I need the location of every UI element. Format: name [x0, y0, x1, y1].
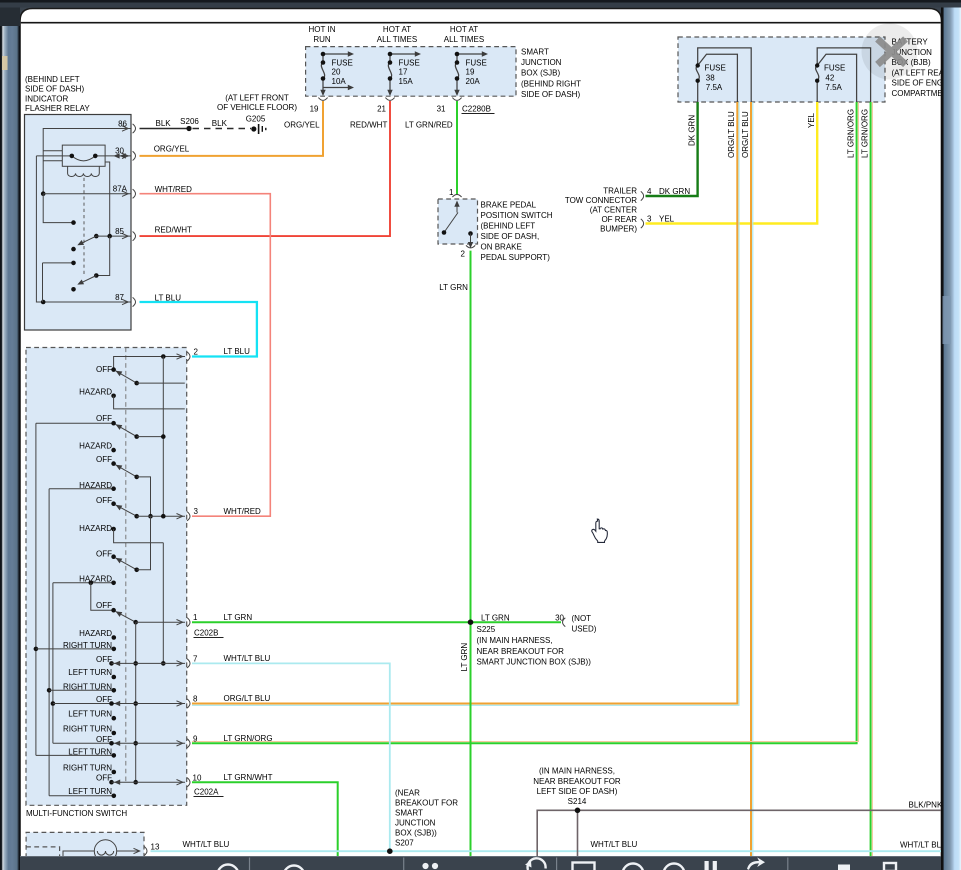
svg-text:17: 17 [399, 68, 408, 77]
svg-text:OFF: OFF [96, 549, 112, 558]
relay pin 85 [115, 227, 135, 241]
app right scrollbar strip [941, 0, 961, 870]
svg-text:JUNCTION: JUNCTION [521, 58, 562, 67]
relay internal wiring [36, 129, 131, 305]
MF LEFT TURN contact row 2 [68, 709, 116, 720]
svg-text:1: 1 [449, 188, 454, 197]
svg-text:LT GRN: LT GRN [224, 613, 253, 622]
svg-text:FUSE: FUSE [332, 59, 353, 68]
relay pin 87A [113, 185, 136, 199]
MF pin 9 [177, 735, 199, 748]
svg-text:WHT/LT BLU: WHT/LT BLU [900, 841, 947, 850]
svg-text:SMART JUNCTION BOX (SJB)): SMART JUNCTION BOX (SJB)) [477, 658, 592, 667]
wire RED/WHT from SJB 21 to relay 85 [140, 101, 391, 236]
svg-text:S225: S225 [477, 625, 496, 634]
svg-text:BLK: BLK [156, 119, 172, 128]
MF OFF contact row 3 [96, 455, 116, 466]
turn indicator lamp box [26, 832, 144, 858]
label BATTERY JUNCTION BOX (BJB) [892, 38, 957, 99]
svg-text:WHT/RED: WHT/RED [224, 507, 262, 516]
svg-text:NEAR BREAKOUT FOR: NEAR BREAKOUT FOR [477, 647, 565, 656]
MF RIGHT TURN contact row 3 [63, 724, 116, 735]
svg-text:2: 2 [194, 348, 199, 357]
battery junction box BJB [678, 37, 885, 102]
wire WHT/RED from relay 87A to MF pin 3 [140, 185, 271, 516]
wire LT BLU from relay 87 to MF pin 2 [140, 294, 257, 357]
svg-text:(IN MAIN HARNESS,: (IN MAIN HARNESS, [539, 767, 615, 776]
svg-text:30: 30 [115, 147, 124, 156]
svg-text:ORG/LT BLU: ORG/LT BLU [741, 111, 750, 158]
fuse 17 15A [387, 51, 421, 96]
MF OFF contact pin 10 row [96, 774, 185, 785]
app left scrollbar strip [0, 0, 20, 870]
label MULTI-FUNCTION SWITCH [26, 809, 127, 818]
relay pin 30 [115, 147, 135, 161]
toolbar icons (cut off at bottom) [218, 857, 897, 870]
label HOT IN RUN [309, 25, 336, 44]
MF HAZARD contact row 1 [79, 387, 185, 409]
relay pin 87 [115, 293, 135, 307]
wire RED/WHT label [350, 121, 387, 130]
wire BLK from relay 86 to S206 [140, 119, 187, 129]
svg-text:13: 13 [151, 843, 160, 852]
svg-text:ALL TIMES: ALL TIMES [444, 35, 484, 44]
svg-text:NEAR BREAKOUT FOR: NEAR BREAKOUT FOR [533, 777, 621, 786]
svg-text:20: 20 [332, 68, 341, 77]
svg-text:RUN: RUN [313, 35, 331, 44]
svg-text:FUSE: FUSE [705, 64, 726, 73]
MF internal line pin 2 to OFF contact [114, 354, 185, 369]
wire label ORG/LT BLU at MF pin 8 [224, 694, 271, 703]
wire WHT/LT BLU from lamp pin 13 across page [151, 840, 948, 851]
svg-text:4: 4 [647, 187, 652, 196]
MF OFF contact row 5 [96, 549, 116, 559]
svg-text:BUMPER): BUMPER) [600, 225, 637, 234]
MF HAZARD contact row 2 [79, 441, 116, 452]
trailer tow connector label [565, 187, 637, 234]
wire LT GRN/ORG from BJB down to MF pin 9 [192, 102, 858, 743]
svg-text:C2280B: C2280B [462, 105, 491, 114]
svg-text:POSITION SWITCH: POSITION SWITCH [481, 211, 553, 220]
svg-text:ALL TIMES: ALL TIMES [377, 35, 417, 44]
svg-text:(IN MAIN HARNESS,: (IN MAIN HARNESS, [477, 636, 553, 645]
wire label WHT/RED at MF pin 3 [224, 507, 262, 516]
svg-text:7.5A: 7.5A [825, 83, 842, 92]
wire ORG/YEL label at relay 30 [154, 145, 190, 154]
MF LEFT TURN contact row 1 [68, 668, 116, 679]
svg-text:BOX (SJB)): BOX (SJB)) [395, 828, 437, 837]
wire YEL from BJB fuse 42 to trailer pin 3 [646, 102, 818, 224]
svg-text:SMART: SMART [395, 808, 423, 817]
svg-text:42: 42 [825, 73, 834, 82]
svg-text:DK GRN: DK GRN [687, 115, 696, 146]
wire label ORG/LT BLU (vertical, 1) [727, 111, 736, 158]
label S207 harness note [395, 788, 458, 847]
MF RIGHT TURN contact row 1 [36, 641, 116, 651]
brake switch pin 1 [449, 188, 462, 197]
MF OFF contact pin 7 row [96, 655, 185, 666]
svg-text:HAZARD: HAZARD [79, 629, 112, 638]
svg-text:LT GRN/ORG: LT GRN/ORG [846, 109, 855, 158]
wire LT GRN/RED from SJB 31 to brake switch pin 1 [456, 101, 458, 194]
MF switch arm 6 (to pin 1) [114, 609, 185, 624]
svg-text:ORG/LT BLU: ORG/LT BLU [727, 111, 736, 158]
MF pin 8 [177, 695, 199, 709]
svg-text:FUSE: FUSE [399, 59, 420, 68]
svg-text:C202A: C202A [194, 788, 219, 797]
svg-text:38: 38 [706, 73, 715, 82]
indicator flasher relay box [25, 115, 132, 331]
MF HAZARD contact row 4 [79, 524, 163, 543]
ground G205 [246, 115, 266, 134]
svg-text:LT GRN/RED: LT GRN/RED [405, 121, 453, 130]
svg-text:7: 7 [193, 655, 198, 664]
wire RED/WHT label at relay 85 [155, 226, 192, 235]
trailer tow connector pin 3 [641, 215, 675, 229]
svg-text:ON BRAKE: ON BRAKE [481, 243, 522, 252]
SJB pin 21 [377, 98, 395, 114]
MF LEFT TURN contact row 3 [36, 747, 116, 757]
svg-text:HOT IN: HOT IN [309, 25, 336, 34]
svg-text:YEL: YEL [807, 112, 816, 128]
MF OFF contact row 2 [36, 414, 116, 425]
svg-text:S214: S214 [568, 797, 587, 806]
wire BLK dashed from S206 to G205 [193, 119, 252, 129]
svg-text:(BEHIND LEFT: (BEHIND LEFT [481, 222, 536, 231]
svg-text:SIDE OF DASH): SIDE OF DASH) [25, 85, 84, 94]
wire label DK GRN (vertical) [687, 115, 696, 146]
page header divider line [21, 22, 941, 24]
MF bus from pin 2 line to pin 3 line [162, 357, 164, 517]
smart junction box SJB [306, 47, 516, 97]
fuse 42 7.5A [815, 48, 871, 102]
svg-text:RIGHT TURN: RIGHT TURN [63, 763, 112, 772]
wire LT GRN from brake switch pin 2 through S225 to page bottom [439, 251, 470, 858]
svg-text:3: 3 [647, 215, 652, 224]
svg-text:10: 10 [193, 774, 202, 783]
svg-text:OF REAR: OF REAR [601, 215, 637, 224]
svg-text:LT GRN/WHT: LT GRN/WHT [224, 773, 273, 782]
label indicator flasher relay [25, 75, 90, 113]
brake switch pin 2 [461, 245, 476, 258]
MF switch arm 2 [114, 422, 165, 439]
svg-text:WHT/LT BLU: WHT/LT BLU [591, 840, 638, 849]
pin 30 (NOT USED) [555, 614, 597, 634]
svg-text:8: 8 [193, 695, 198, 704]
MF left bus 1 [34, 423, 39, 755]
svg-text:BRAKE PEDAL: BRAKE PEDAL [481, 201, 537, 210]
wire label ORG/LT BLU (vertical, 2) [741, 111, 750, 158]
brake switch contacts [442, 201, 474, 249]
svg-text:LEFT TURN: LEFT TURN [68, 668, 112, 677]
wire label LT GRN/ORG (vertical, 1) [846, 109, 855, 158]
MF pin 2 [177, 348, 199, 362]
MF switch arm 4 (to pin 3) [114, 503, 185, 519]
splice S225 [468, 619, 496, 634]
svg-text:LT GRN: LT GRN [460, 643, 469, 672]
svg-text:7.5A: 7.5A [706, 83, 723, 92]
svg-text:LT BLU: LT BLU [155, 294, 182, 303]
svg-text:31: 31 [437, 105, 446, 114]
svg-text:YEL: YEL [659, 215, 675, 224]
svg-text:19: 19 [310, 105, 319, 114]
svg-text:10A: 10A [332, 77, 347, 86]
relay pin 30 internal arrows [105, 153, 131, 158]
MF switch arm 3 [114, 462, 153, 518]
wire BLK/PNK through S214 [537, 801, 943, 859]
wire label YEL (vertical) [807, 112, 816, 128]
relay coil [62, 145, 105, 276]
svg-text:PEDAL SUPPORT): PEDAL SUPPORT) [481, 253, 551, 262]
wire LT GRN from MF pin 1 to (NOT USED) pin 30 [192, 613, 561, 623]
svg-text:FLASHER RELAY: FLASHER RELAY [25, 104, 90, 113]
MF HAZARD contact row 3 [49, 481, 116, 491]
svg-text:85: 85 [115, 227, 124, 236]
label SMART JUNCTION BOX (SJB) [521, 47, 581, 99]
MF OFF contact row 6 [96, 601, 116, 613]
MF HAZARD contact row 5 [53, 574, 116, 610]
wire ORG/YEL from SJB 19 to relay 30 [140, 101, 324, 156]
MF hazard contact OFF row 1 [96, 365, 116, 374]
wire WHT/LT BLU from MF pin 7 down to S207 [192, 654, 390, 850]
splice S207 [387, 848, 393, 854]
splice S206 [180, 117, 199, 131]
connector C202A [194, 788, 224, 797]
close watermark X icon [862, 24, 918, 80]
svg-text:(AT CENTER: (AT CENTER [590, 206, 637, 215]
app top bar [0, 0, 961, 8]
svg-text:MULTI-FUNCTION SWITCH: MULTI-FUNCTION SWITCH [26, 809, 127, 818]
svg-text:OFF: OFF [96, 601, 112, 610]
svg-text:1: 1 [193, 613, 198, 622]
svg-text:S206: S206 [180, 117, 199, 126]
svg-text:9: 9 [193, 735, 198, 744]
wire label LT GRN/ORG at MF pin 9 [224, 734, 273, 743]
svg-text:87: 87 [115, 293, 124, 302]
SJB pin 31 [437, 98, 462, 114]
mouse hand cursor [592, 519, 608, 542]
svg-text:RIGHT TURN: RIGHT TURN [63, 724, 112, 733]
svg-text:WHT/RED: WHT/RED [155, 185, 193, 194]
relay switch arm 2 [71, 273, 98, 291]
svg-text:(AT LEFT FRONT: (AT LEFT FRONT [225, 94, 289, 103]
svg-text:HAZARD: HAZARD [79, 524, 112, 533]
wire ORG/LT BLU from BJB down to MF pin 8 [192, 102, 739, 705]
svg-text:LEFT SIDE OF DASH): LEFT SIDE OF DASH) [537, 787, 618, 796]
svg-text:OFF: OFF [96, 365, 112, 374]
svg-text:FUSE: FUSE [466, 59, 487, 68]
label HOT AT ALL TIMES (fuse 19) [444, 25, 484, 44]
splice S214 [575, 808, 581, 814]
MF switch arm 1 [114, 368, 185, 385]
relay contact bus [96, 236, 109, 275]
label (AT LEFT FRONT OF VEHICLE FLOOR) [217, 94, 297, 113]
fuse 20 10A [320, 51, 354, 96]
svg-text:RED/WHT: RED/WHT [155, 226, 192, 235]
svg-text:SIDE OF DASH,: SIDE OF DASH, [481, 232, 540, 241]
MF switch arm 5 [114, 516, 150, 572]
MF HAZARD contact (turn section) [79, 629, 116, 640]
wire ORG/LT BLU from BJB down to page bottom [751, 102, 753, 858]
wire LT GRN/RED label [405, 121, 453, 130]
MF left bus 2 [47, 489, 52, 796]
wire ORG/YEL label [284, 121, 320, 130]
label BRAKE PEDAL POSITION SWITCH [481, 201, 553, 263]
MF bus to pin 7 line [161, 543, 166, 666]
svg-text:HAZARD: HAZARD [79, 441, 112, 450]
svg-text:SMART: SMART [521, 47, 549, 56]
svg-text:JUNCTION: JUNCTION [395, 818, 436, 827]
svg-text:OFF: OFF [96, 414, 112, 423]
wire DK GRN from BJB fuse 38 to trailer pin 4 [646, 102, 698, 196]
svg-text:(NOT: (NOT [572, 614, 592, 623]
brake pedal position switch [438, 199, 478, 244]
svg-text:WHT/LT BLU: WHT/LT BLU [183, 840, 230, 849]
svg-text:FUSE: FUSE [824, 64, 845, 73]
label S225 harness note [477, 636, 592, 667]
MF left bus 3 [51, 583, 56, 744]
svg-text:2: 2 [461, 250, 466, 259]
svg-text:(NEAR: (NEAR [395, 788, 420, 797]
connector C202B [194, 629, 224, 638]
svg-text:15A: 15A [399, 77, 414, 86]
svg-text:BREAKOUT FOR: BREAKOUT FOR [395, 798, 458, 807]
svg-text:RED/WHT: RED/WHT [350, 121, 387, 130]
svg-text:BOX (SJB): BOX (SJB) [521, 69, 560, 78]
MF OFF contact pin 8 row [53, 695, 185, 706]
svg-text:USED): USED) [572, 625, 597, 634]
MF RIGHT TURN contact row 2 [49, 682, 116, 692]
svg-text:G205: G205 [246, 115, 266, 124]
lamp pin 13 [134, 843, 160, 856]
svg-text:HAZARD: HAZARD [79, 574, 112, 583]
svg-text:19: 19 [466, 68, 475, 77]
svg-text:LT BLU: LT BLU [224, 347, 251, 356]
svg-text:HOT AT: HOT AT [450, 25, 478, 34]
svg-text:(BEHIND RIGHT: (BEHIND RIGHT [521, 79, 581, 88]
svg-text:ORG/YEL: ORG/YEL [154, 145, 190, 154]
svg-text:OFF: OFF [96, 496, 112, 505]
svg-text:BLK: BLK [212, 119, 228, 128]
fuse 38 7.5A [696, 48, 752, 102]
svg-text:INDICATOR: INDICATOR [25, 94, 68, 103]
trailer tow connector pin 4 [641, 187, 691, 201]
svg-text:WHT/LT BLU: WHT/LT BLU [224, 654, 271, 663]
MF pin 3 [177, 507, 199, 521]
svg-text:S207: S207 [395, 838, 414, 847]
svg-text:OF VEHICLE FLOOR): OF VEHICLE FLOOR) [217, 103, 297, 112]
svg-text:OFF: OFF [96, 455, 112, 464]
svg-text:HOT AT: HOT AT [383, 25, 411, 34]
svg-text:20A: 20A [466, 77, 481, 86]
svg-text:87A: 87A [113, 185, 128, 194]
MF bus pin1 pivot down to pin 10 line [133, 622, 138, 784]
svg-text:HAZARD: HAZARD [79, 387, 112, 396]
svg-text:LT GRN/ORG: LT GRN/ORG [224, 734, 273, 743]
MF OFF contact row 4 [96, 496, 116, 506]
svg-text:(BEHIND LEFT: (BEHIND LEFT [25, 75, 80, 84]
label S214 harness note [533, 767, 621, 806]
svg-text:ORG/YEL: ORG/YEL [284, 121, 320, 130]
wire label LT GRN/ORG (vertical, 2) [860, 109, 869, 158]
MF OFF contact pin 9 row [53, 735, 185, 746]
MF LEFT TURN contact row 4 [49, 787, 116, 798]
wire label LT BLU at MF pin 2 [224, 347, 251, 356]
svg-text:ORG/LT BLU: ORG/LT BLU [224, 694, 271, 703]
svg-text:SIDE OF DASH): SIDE OF DASH) [521, 90, 580, 99]
wire LT GRN/WHT from MF pin 10 down to page bottom [192, 773, 338, 858]
relay switch arm 1 [71, 234, 131, 252]
svg-text:3: 3 [194, 507, 199, 516]
label HOT AT ALL TIMES (fuse 17) [377, 25, 417, 44]
svg-text:LT GRN: LT GRN [439, 283, 468, 292]
app bottom toolbar [0, 856, 944, 870]
fuse 19 20A [454, 51, 488, 96]
multi-function switch box [26, 348, 187, 806]
MF pin 7 [177, 655, 199, 669]
svg-text:C202B: C202B [194, 629, 218, 638]
svg-text:LEFT TURN: LEFT TURN [68, 709, 112, 718]
svg-text:BLK/PNK: BLK/PNK [909, 801, 943, 810]
svg-text:LT GRN: LT GRN [481, 614, 510, 623]
wire LT GRN/ORG from BJB down to page bottom [871, 102, 873, 858]
SJB pin 19 [310, 98, 328, 114]
svg-text:LT GRN/ORG: LT GRN/ORG [860, 109, 869, 158]
relay pin 86 [118, 120, 135, 134]
connector C2280B [462, 105, 495, 114]
MF pin 1 [177, 613, 199, 627]
svg-text:DK GRN: DK GRN [659, 187, 690, 196]
svg-text:LEFT TURN: LEFT TURN [68, 787, 112, 796]
svg-text:86: 86 [118, 120, 127, 129]
svg-text:21: 21 [377, 105, 386, 114]
MF RIGHT TURN contact row 4 [63, 763, 116, 774]
svg-text:TRAILER: TRAILER [603, 187, 637, 196]
turn indicator lamp [63, 840, 139, 862]
wire label LT GRN (vertical, below S225) [460, 643, 469, 672]
MF pin 10 [177, 774, 202, 787]
svg-text:TOW CONNECTOR: TOW CONNECTOR [565, 196, 637, 205]
